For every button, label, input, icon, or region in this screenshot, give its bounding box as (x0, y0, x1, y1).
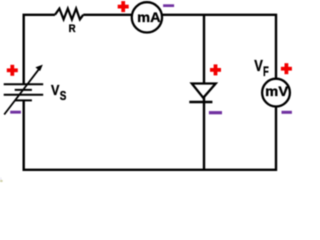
svg-text:mV: mV (265, 83, 289, 99)
svg-text:R: R (69, 23, 76, 35)
svg-text:mA: mA (137, 9, 160, 25)
svg-text:S: S (60, 88, 67, 103)
svg-text:V: V (51, 82, 59, 99)
svg-text:F: F (263, 63, 269, 79)
svg-text:V: V (254, 58, 263, 75)
